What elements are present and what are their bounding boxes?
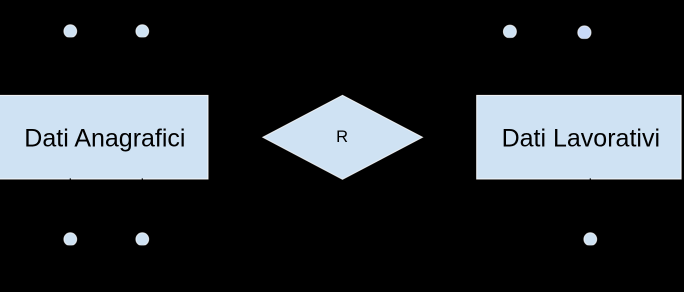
attribute a2 circle: [136, 25, 149, 39]
wire attribute a2 to entity E1: [141, 31, 143, 95]
svg-text:Dati Anagrafici: Dati Anagrafici: [24, 124, 185, 152]
svg-text:Dati Lavorativi: Dati Lavorativi: [502, 124, 660, 152]
entity E2 Dati Lavorativi: [477, 95, 681, 179]
attribute b2 circle (cornflower): [578, 26, 591, 40]
wire stub a3 at E1 bottom edge: [69, 178, 71, 180]
attribute b3 circle: [584, 233, 597, 247]
wire attribute a1 to entity E1: [69, 31, 71, 95]
attribute a4 circle: [136, 233, 149, 247]
wire entity E1 to relationship R: [208, 136, 263, 138]
wire relationship R to entity E2: [423, 136, 477, 138]
svg-text:R: R: [336, 128, 348, 146]
attribute a1 circle: [64, 25, 77, 39]
attribute b1 circle: [503, 25, 516, 39]
wire attribute a3 to entity E1: [69, 179, 71, 239]
wire attribute b3 to entity E2: [589, 179, 591, 239]
wire attribute b1 to entity E2: [509, 32, 511, 96]
entity E1 Dati Anagrafici: [0, 95, 208, 179]
wire stub a4 at E1 bottom edge: [141, 178, 143, 180]
wire attribute b2 to entity E2: [583, 33, 585, 96]
attribute a3 circle: [64, 233, 77, 247]
wire stub b3 at E2 bottom edge: [589, 178, 591, 180]
relationship R diamond: [263, 95, 423, 179]
wire attribute a4 to entity E1: [141, 179, 143, 239]
